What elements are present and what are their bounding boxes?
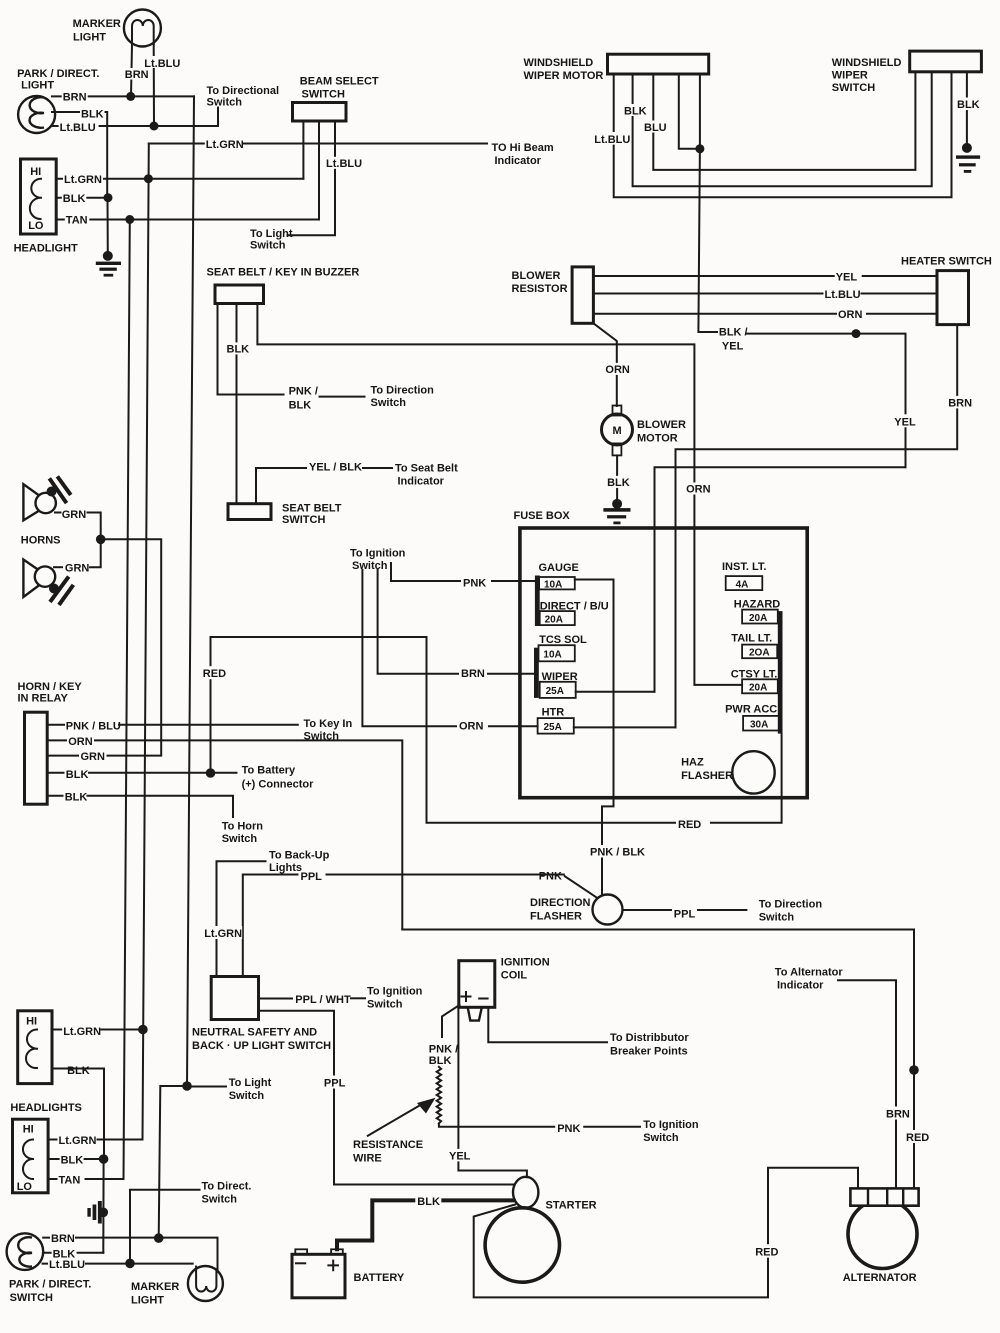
wire BLK headlights 2 to park BLK chain: [52, 1069, 104, 1160]
svg-text:LIGHT: LIGHT: [131, 1295, 164, 1307]
wire dash to direction switch: [320, 396, 365, 398]
svg-text:To Directional: To Directional: [207, 85, 280, 97]
horn / key-in relay box: [25, 712, 48, 804]
wire Lt.BLU blower resistor to heater switch: [593, 293, 937, 295]
svg-text:To Light: To Light: [250, 228, 293, 240]
node Lt.BLU junction (park 2): [125, 1259, 135, 1269]
svg-text:HI: HI: [26, 1016, 37, 1028]
svg-text:BEAM SELECT: BEAM SELECT: [300, 76, 379, 88]
svg-text:Switch: Switch: [367, 999, 403, 1011]
wire RED starter to alternator: [474, 1168, 858, 1298]
label Lt.GRN (backup): [203, 926, 242, 940]
label BLK (buzzer): [226, 342, 250, 355]
svg-text:To Direction: To Direction: [759, 899, 823, 911]
node battery connector junction: [206, 768, 216, 778]
svg-text:PPL / WHT: PPL / WHT: [295, 994, 351, 1006]
svg-text:10A: 10A: [543, 649, 561, 660]
svg-text:BLK: BLK: [624, 106, 647, 118]
svg-text:BLK: BLK: [289, 400, 312, 412]
svg-text:BLK: BLK: [429, 1055, 452, 1067]
svg-text:BLK: BLK: [65, 791, 88, 803]
direction flasher circle: [593, 895, 623, 925]
wire To Alternator Indicator BRN: [838, 980, 896, 1188]
wire BRN long vertical to bottom: [187, 96, 194, 1086]
wire to direct switch branch to Lt.BLU: [130, 1190, 200, 1264]
wire relay pin PNK/BLU to key-in switch: [47, 724, 64, 726]
wire marker BRN lead: [131, 44, 132, 96]
svg-text:2OA: 2OA: [749, 648, 770, 659]
wire Lt.GRN headlights 2: [52, 1029, 143, 1031]
wire GRN horns to relay: [101, 539, 162, 755]
svg-text:LIGHT: LIGHT: [73, 32, 106, 44]
svg-text:MARKER: MARKER: [73, 18, 121, 30]
wire Lt.GRN headlight 3: [48, 1139, 142, 1141]
wire WIPER fuse internal: [576, 691, 655, 693]
svg-text:To Direct.: To Direct.: [202, 1181, 252, 1193]
wire coil + to resistance wire: [442, 1005, 460, 1037]
label ORN (ctsy feed): [685, 483, 711, 496]
svg-text:25A: 25A: [546, 686, 564, 697]
wire PNK/BLU run: [119, 724, 298, 726]
wire Lt.GRN backup lights: [217, 861, 266, 976]
wire wiper motor pin 5: [699, 74, 701, 149]
svg-text:YEL: YEL: [894, 416, 916, 428]
svg-text:MARKER: MARKER: [131, 1281, 179, 1293]
label BLK (headlight): [62, 192, 87, 205]
svg-text:PPL: PPL: [301, 871, 323, 883]
wire YEL blower resistor to heater switch: [593, 275, 937, 277]
battery: [292, 1249, 345, 1298]
label PNK (gauge feed): [461, 576, 491, 590]
horn 2: [23, 560, 72, 604]
svg-text:GRN: GRN: [62, 509, 86, 521]
wire Lt.BLU park to directional switch stub: [52, 108, 218, 127]
svg-text:MOTOR: MOTOR: [637, 433, 678, 445]
label Lt.GRN (hi beam run): [205, 138, 244, 152]
wire ORN blower resistor lead to motor: [593, 323, 616, 406]
svg-text:Switch: Switch: [371, 397, 407, 409]
svg-text:PWR ACC: PWR ACC: [725, 703, 777, 715]
wire BLK chain down to park switch: [102, 1159, 104, 1253]
svg-text:To Direction: To Direction: [371, 385, 435, 397]
svg-text:Lt.BLU: Lt.BLU: [594, 134, 630, 146]
svg-text:Lt.BLU: Lt.BLU: [144, 58, 180, 70]
wire relay pin GRN: [47, 755, 78, 757]
label BRN (heater switch): [947, 396, 973, 410]
headlight 3 filaments: [23, 1140, 33, 1180]
wire BLK park to ground chain: [52, 112, 107, 198]
svg-text:10A: 10A: [544, 579, 562, 590]
headlights box (HI only): [18, 1011, 52, 1084]
svg-text:Indicator: Indicator: [398, 476, 445, 488]
ground (blower motor): [603, 499, 630, 524]
svg-text:STARTER: STARTER: [546, 1200, 597, 1212]
wire buzzer pin BLK to seat belt switch: [236, 304, 238, 504]
svg-text:Switch: Switch: [207, 97, 243, 109]
svg-text:HI: HI: [23, 1124, 34, 1136]
svg-text:HI: HI: [30, 166, 41, 178]
svg-text:COIL: COIL: [501, 970, 528, 982]
svg-text:WIRE: WIRE: [353, 1153, 382, 1165]
svg-text:NEUTRAL SAFETY AND: NEUTRAL SAFETY AND: [192, 1027, 317, 1039]
svg-text:BLK: BLK: [417, 1196, 440, 1208]
wire GRN horn 1: [88, 513, 101, 540]
label BRN (wiper feed): [459, 666, 487, 680]
node BLK junction: [104, 193, 113, 202]
svg-text:BRN: BRN: [63, 92, 87, 104]
wire relay pin BLK to battery connector: [47, 772, 63, 774]
svg-text:LO: LO: [17, 1181, 33, 1193]
node BLK junction (hl3): [99, 1154, 109, 1164]
svg-text:Lt.GRN: Lt.GRN: [204, 928, 242, 940]
svg-text:Breaker Points: Breaker Points: [610, 1046, 688, 1058]
svg-text:RED: RED: [203, 668, 226, 680]
wire seat belt switch YEL/BLK: [256, 468, 306, 504]
wire BRN park to BRN bus corner: [52, 95, 194, 97]
wire wiper motor pin BLK to switch: [633, 72, 932, 186]
seat belt switch box: [228, 504, 271, 520]
label PPL (backup run): [299, 869, 326, 883]
wire ORN blower resistor to heater switch: [593, 313, 937, 315]
svg-text:(+) Connector: (+) Connector: [242, 779, 315, 791]
label PNK / BLK (flasher feed): [589, 845, 645, 859]
alternator terminal block: [850, 1188, 918, 1205]
svg-text:To Horn: To Horn: [222, 821, 264, 833]
label YEL (coil): [448, 1149, 473, 1163]
wire RED net (battery node to fuse box PWR ACC): [211, 637, 782, 823]
svg-text:20A: 20A: [749, 683, 767, 694]
svg-text:GAUGE: GAUGE: [539, 562, 579, 574]
label RED (starter): [753, 1244, 782, 1259]
svg-text:PNK / BLK: PNK / BLK: [590, 847, 645, 859]
svg-text:BRN: BRN: [125, 69, 149, 81]
wire ORN-relay run to alternator RED: [402, 930, 914, 1189]
windshield wiper motor box: [608, 54, 709, 74]
svg-text:BLK: BLK: [607, 477, 630, 489]
node BLK/YEL junction: [852, 329, 861, 338]
arrow resistance wire: [368, 1104, 423, 1136]
wire Lt.GRN long vertical: [143, 144, 149, 1140]
svg-text:BLK: BLK: [81, 109, 104, 121]
label ORN (resistor): [837, 308, 866, 322]
wire HTR fuse internal: [574, 726, 676, 728]
wire BLK/YEL run to heater side: [746, 334, 906, 468]
wire junction to To Light Switch label: [187, 1086, 226, 1088]
svg-text:IN RELAY: IN RELAY: [18, 693, 69, 705]
wire PPL backup run to flasher: [243, 875, 564, 977]
wire BLK park 2: [43, 1252, 103, 1254]
svg-text:RED: RED: [678, 819, 701, 831]
wire buzzer pin PNK/BLK: [218, 304, 284, 395]
coil + terminal mark: [462, 992, 471, 1001]
svg-text:30A: 30A: [750, 719, 768, 730]
label RED (relay side): [202, 666, 228, 680]
svg-text:Switch: Switch: [352, 560, 388, 572]
svg-text:BRN: BRN: [461, 668, 485, 680]
neutral safety and back-up light switch box: [211, 977, 258, 1020]
svg-text:INST. LT.: INST. LT.: [722, 561, 766, 573]
wire Lt.GRN hi-beam run: [149, 143, 487, 145]
svg-text:PNK: PNK: [557, 1123, 580, 1135]
svg-text:Indicator: Indicator: [777, 980, 824, 992]
chassis ground (body): [87, 1201, 108, 1224]
node wiper junction: [695, 144, 704, 153]
svg-text:SEAT BELT / KEY IN BUZZER: SEAT BELT / KEY IN BUZZER: [207, 267, 360, 279]
wire battery cable BLK to starter: [337, 1200, 514, 1249]
wire GRN horn 2: [90, 539, 101, 567]
label Lt.BLU (wiper motor): [593, 132, 631, 146]
svg-text:20A: 20A: [545, 614, 563, 625]
svg-text:BLOWER: BLOWER: [512, 270, 561, 282]
svg-text:ORN: ORN: [686, 484, 711, 496]
svg-text:SWITCH: SWITCH: [302, 89, 345, 101]
label Lt.BLU (resistor): [824, 288, 861, 302]
svg-text:ALTERNATOR: ALTERNATOR: [843, 1272, 917, 1284]
wire TAN headlight 3: [48, 1178, 123, 1180]
svg-text:LO: LO: [28, 220, 44, 232]
blower motor: [602, 406, 633, 456]
label Lt.BLU (park 2): [48, 1258, 85, 1271]
blower resistor box: [572, 267, 593, 323]
svg-text:Indicator: Indicator: [495, 155, 542, 167]
wire BLK run to battery node: [89, 772, 237, 774]
svg-text:PARK / DIRECT.: PARK / DIRECT.: [17, 68, 99, 80]
svg-text:SWITCH: SWITCH: [832, 82, 875, 94]
svg-text:PPL: PPL: [674, 909, 696, 921]
svg-text:YEL: YEL: [836, 271, 858, 283]
svg-text:PPL: PPL: [324, 1078, 346, 1090]
svg-text:HEATER SWITCH: HEATER SWITCH: [901, 256, 992, 268]
marker 2 filament w: [196, 1267, 216, 1292]
svg-text:M: M: [613, 425, 622, 437]
svg-text:ORN: ORN: [605, 364, 630, 376]
svg-text:ORN: ORN: [838, 309, 863, 321]
node GRN horns junction: [96, 535, 106, 545]
svg-text:Switch: Switch: [202, 1194, 238, 1206]
wire buzzer pin 3 to CTSY LT fuse: [257, 304, 742, 685]
svg-text:To Battery: To Battery: [242, 765, 296, 777]
node Lt.GRN junction: [144, 174, 153, 183]
horn 1: [23, 478, 69, 520]
wire PNK to GAUGE fuse: [391, 563, 535, 581]
headlight box (top): [21, 159, 57, 234]
svg-text:TAN: TAN: [59, 1174, 81, 1186]
svg-text:BLK: BLK: [66, 769, 89, 781]
wire resistance wire to PNK ignition run: [439, 1124, 640, 1126]
svg-text:To Distribbutor: To Distribbutor: [610, 1032, 689, 1044]
node BRN junction: [126, 92, 135, 101]
beam select switch box: [293, 103, 347, 122]
wire beam select pin 1: [302, 121, 304, 179]
wire beam select pin 2: [318, 121, 320, 220]
svg-text:Lt.GRN: Lt.GRN: [63, 1026, 101, 1038]
svg-text:HTR: HTR: [542, 707, 565, 719]
svg-text:TAIL LT.: TAIL LT.: [731, 633, 772, 645]
svg-text:YEL: YEL: [722, 341, 744, 353]
node Lt.BLU junction: [150, 122, 159, 131]
svg-text:FLASHER: FLASHER: [681, 770, 733, 782]
wire wiper switch BLK to ground: [966, 72, 968, 148]
wire PPL/WHT pin: [259, 998, 293, 1000]
label TAN (hl3): [58, 1173, 85, 1186]
wire dash to ignition switch: [351, 997, 365, 999]
svg-text:Switch: Switch: [229, 1090, 265, 1102]
bus bar hazard..pwracc: [778, 611, 783, 734]
park/direct light (top) bulb: [18, 96, 55, 133]
wire PPL flasher to direction switch: [623, 909, 672, 911]
wire to seat belt indicator: [363, 467, 392, 469]
headlight box 3 (HI/LO): [13, 1119, 49, 1193]
coil bottom pin: [468, 1008, 482, 1020]
label YEL (resistor): [835, 270, 862, 284]
svg-text:To Light: To Light: [229, 1077, 272, 1089]
label ORN (htr feed): [457, 719, 488, 733]
svg-text:PARK / DIRECT.: PARK / DIRECT.: [9, 1279, 91, 1291]
svg-text:HEADLIGHT: HEADLIGHT: [14, 243, 78, 255]
ground (wiper switch): [956, 143, 980, 173]
label TAN (headlight): [65, 214, 90, 227]
svg-text:Switch: Switch: [250, 240, 286, 252]
node To-Light-Switch junction: [182, 1081, 192, 1091]
wire Lt.GRN headlight HI to beam select pin 1: [56, 178, 303, 180]
label ORN (blower lead): [604, 363, 631, 376]
svg-text:PNK: PNK: [463, 578, 486, 590]
wire PPL backup to starter solenoid: [259, 1011, 514, 1185]
svg-text:To Ignition: To Ignition: [367, 986, 423, 998]
seat belt / key-in buzzer box: [215, 285, 264, 304]
label Lt.GRN (hl3): [58, 1134, 97, 1147]
ground (headlight/park BLK): [96, 251, 121, 277]
svg-text:GRN: GRN: [65, 562, 90, 574]
svg-text:FLASHER: FLASHER: [530, 911, 582, 923]
svg-text:BLOWER: BLOWER: [637, 419, 686, 431]
svg-text:FUSE BOX: FUSE BOX: [514, 510, 571, 522]
node TAN junction: [125, 215, 134, 224]
svg-text:YEL: YEL: [449, 1150, 471, 1162]
svg-text:SWITCH: SWITCH: [282, 514, 325, 526]
svg-text:Lt.BLU: Lt.BLU: [326, 158, 362, 170]
svg-text:HORNS: HORNS: [21, 535, 61, 547]
svg-text:ORN: ORN: [68, 736, 93, 748]
label Lt.BLU (marker): [143, 56, 180, 70]
label YEL (on vertical): [893, 414, 918, 428]
svg-text:Lights: Lights: [269, 862, 302, 874]
label RED (fuse box bottom): [676, 818, 710, 832]
svg-text:Lt.GRN: Lt.GRN: [206, 139, 244, 151]
wire BLK/YEL from wiper junction: [698, 149, 717, 332]
label BRN (alternator): [884, 1107, 910, 1121]
svg-text:RESISTOR: RESISTOR: [512, 283, 568, 295]
svg-text:PNK: PNK: [539, 871, 562, 883]
wire BLK 2 run: [88, 796, 234, 817]
alternator body: [848, 1200, 917, 1269]
node BRN/To-Light junction: [154, 1233, 164, 1243]
wire To-Light branch down to BRN park bus: [159, 1086, 187, 1238]
wire PNK into flasher: [564, 876, 597, 898]
wire BRN park 2 to marker 2: [43, 1238, 217, 1270]
svg-text:To Alternator: To Alternator: [775, 967, 844, 979]
svg-text:BLK /: BLK /: [719, 327, 748, 339]
label Lt.GRN (hl2): [62, 1025, 101, 1038]
svg-text:SEAT BELT: SEAT BELT: [282, 503, 342, 515]
svg-text:YEL / BLK: YEL / BLK: [309, 462, 362, 474]
marker light (top) bulb: [124, 10, 161, 47]
svg-text:25A: 25A: [544, 722, 562, 733]
label BRN (marker): [124, 68, 149, 81]
wire marker Lt.BLU lead: [153, 44, 155, 126]
wire beam select pin 3 Lt.BLU to light switch: [288, 121, 336, 235]
svg-text:BLK: BLK: [957, 99, 980, 111]
park 2 filament: [18, 1237, 32, 1266]
wire TAN long vertical: [124, 220, 130, 1180]
wire BLK headlight: [56, 197, 107, 199]
svg-text:PNK /: PNK /: [289, 386, 318, 398]
svg-text:To Ignition: To Ignition: [643, 1119, 699, 1131]
headlight HI filament: [26, 1030, 37, 1069]
wire BRN to WIPER fuse: [378, 570, 535, 674]
heater switch box: [937, 271, 969, 325]
svg-text:Lt.GRN: Lt.GRN: [59, 1135, 97, 1147]
node alternator RED junction: [909, 1065, 919, 1075]
svg-text:WIPER MOTOR: WIPER MOTOR: [524, 70, 604, 82]
svg-text:LIGHT: LIGHT: [21, 80, 54, 92]
park/direct switch bulb: [7, 1233, 44, 1270]
label BLK (blower): [606, 476, 630, 489]
svg-text:BRN: BRN: [948, 397, 972, 409]
svg-text:To Back-Up: To Back-Up: [269, 850, 330, 862]
svg-text:PNK / BLU: PNK / BLU: [66, 720, 121, 732]
fuse box outline: [520, 528, 807, 798]
svg-text:Switch: Switch: [759, 912, 795, 924]
svg-text:HORN / KEY: HORN / KEY: [18, 681, 83, 693]
label Lt.BLU (park): [59, 121, 99, 134]
svg-text:TO Hi Beam: TO Hi Beam: [492, 142, 554, 154]
svg-text:To Key In: To Key In: [304, 718, 353, 730]
svg-text:To Ignition: To Ignition: [350, 548, 406, 560]
wire BLK down to ground: [107, 198, 109, 256]
svg-text:HAZ: HAZ: [681, 757, 704, 769]
svg-text:WINDSHIELD: WINDSHIELD: [524, 57, 594, 69]
svg-text:BLU: BLU: [644, 122, 667, 134]
svg-text:WINDSHIELD: WINDSHIELD: [832, 57, 902, 69]
svg-text:4A: 4A: [736, 579, 749, 590]
svg-text:BACK · UP LIGHT SWITCH: BACK · UP LIGHT SWITCH: [192, 1040, 331, 1052]
label BLK (park 2): [52, 1247, 77, 1260]
svg-text:BLK: BLK: [61, 1154, 84, 1166]
svg-text:IGNITION: IGNITION: [501, 957, 550, 969]
ignition coil box: [459, 961, 495, 1008]
svg-text:RESISTANCE: RESISTANCE: [353, 1139, 423, 1151]
label BRN (park): [62, 91, 88, 104]
svg-text:DIRECTION: DIRECTION: [530, 897, 591, 909]
wire wiper motor pin BLU to switch: [653, 72, 915, 170]
svg-text:BLK: BLK: [67, 1065, 90, 1077]
svg-text:To Seat Belt: To Seat Belt: [395, 463, 458, 475]
svg-text:Lt.GRN: Lt.GRN: [64, 174, 102, 186]
wire YEL wiper-fuse feed: [655, 467, 906, 691]
wire PPL dash: [698, 909, 746, 911]
label RED (alternator): [904, 1130, 931, 1144]
label Lt.GRN (headlight): [63, 173, 103, 186]
windshield wiper switch box: [910, 51, 982, 72]
label PPL (starter run): [323, 1076, 346, 1090]
svg-text:Switch: Switch: [222, 833, 258, 845]
label BLK (battery cable): [415, 1195, 441, 1209]
bus bar tcs/wiper: [534, 648, 539, 698]
label Lt.BLU (beam select): [325, 157, 366, 170]
svg-text:RED: RED: [906, 1132, 929, 1144]
label BLK (hl3): [60, 1153, 84, 1166]
